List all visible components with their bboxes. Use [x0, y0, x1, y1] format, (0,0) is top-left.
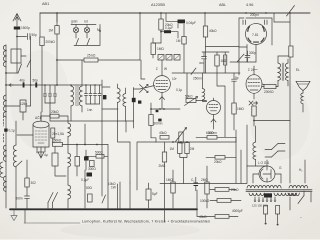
lamp green	[73, 27, 78, 32]
node lamp m1	[99, 30, 101, 32]
resistor 1M bottom	[171, 182, 175, 193]
svg-text:50p: 50p	[32, 33, 38, 37]
svg-text:2MΩ: 2MΩ	[201, 178, 208, 182]
switch wave band S1 box	[11, 49, 21, 63]
transformer power core	[246, 190, 312, 192]
capacitor 1500p	[14, 27, 20, 30]
wire T2 frame	[239, 18, 272, 47]
wire T1 grid diagonal	[134, 86, 155, 90]
wire 1M right	[233, 81, 235, 130]
svg-text:300Ω: 300Ω	[88, 167, 96, 171]
wire x85 vertical	[84, 124, 86, 208]
capacitor bank left of TR1	[43, 85, 46, 103]
resistor cluster a	[75, 157, 80, 167]
wire bottom frame line	[24, 222, 80, 224]
wire 1k leads	[55, 146, 66, 176]
wire ps switch links	[265, 144, 285, 158]
switch arm diagonal	[18, 64, 22, 73]
inductor IF2 secondary	[123, 94, 126, 107]
capacitor cathode blob b	[158, 119, 161, 122]
node tuning junction	[5, 84, 7, 86]
switch lamp red	[87, 39, 90, 46]
resistor 25k horizontal	[84, 58, 98, 62]
wire tuning line y85	[6, 84, 102, 86]
trimmer box left	[20, 100, 26, 112]
wire osc coil L4 vertical	[15, 121, 17, 208]
wire left resistor	[26, 160, 28, 189]
svg-text:~: ~	[300, 216, 302, 220]
potentiometer volume	[179, 132, 183, 143]
capacitor comb 2	[89, 85, 92, 104]
wire IF comb bottom	[86, 103, 100, 105]
resistor 20k tube plate	[50, 114, 59, 118]
lamp red	[84, 27, 89, 32]
wire det bus y73	[172, 72, 240, 74]
inductor ps choke	[253, 142, 256, 160]
wire cap branch	[161, 32, 178, 38]
inductor mid coil a	[68, 123, 71, 137]
svg-text:4000μF: 4000μF	[232, 209, 243, 213]
svg-text:0,04μF: 0,04μF	[186, 21, 196, 25]
wire T2 left drop	[238, 47, 240, 75]
svg-text:0,1μ: 0,1μ	[176, 88, 182, 92]
svg-text:300nn: 300nn	[154, 122, 163, 126]
wire af verticals	[165, 125, 248, 183]
svg-text:AB1: AB1	[42, 2, 49, 6]
inductor power winding bottom b	[274, 193, 297, 196]
svg-text:Σ: Σ	[156, 67, 158, 71]
wire det res down	[183, 24, 185, 73]
wire T2 bottom leads	[247, 45, 256, 63]
svg-text:Σ 24ᵐᵃ: Σ 24ᵐᵃ	[248, 68, 258, 72]
svg-text:50kΩ: 50kΩ	[185, 95, 193, 99]
resistor 50ohm bottom	[88, 194, 93, 202]
svg-text:A123SB: A123SB	[151, 3, 165, 7]
potentiometer arrow	[176, 128, 187, 142]
wire shield dashes	[3, 116, 5, 142]
inductor mid coil c	[68, 185, 71, 199]
inductor power secondary top	[289, 185, 308, 188]
resistor 5uF right	[146, 189, 151, 200]
transformer IF2 box	[102, 87, 118, 109]
node af feed	[253, 120, 255, 122]
resistor det3	[215, 55, 219, 66]
capacitor 0.1 bottomleft	[87, 173, 93, 177]
capacitor IF2 out	[132, 98, 136, 102]
wire x102 vertical	[101, 121, 103, 196]
wire 50k link	[187, 73, 207, 101]
wire from 50p cap	[29, 37, 32, 107]
resistor 2000ohm	[264, 85, 276, 89]
wire 5uF	[148, 183, 150, 208]
wire IF2 right vertical	[133, 88, 135, 122]
svg-text:rot: rot	[84, 20, 88, 24]
svg-text:5μF: 5μF	[152, 192, 158, 196]
svg-text:200pn: 200pn	[250, 13, 259, 17]
svg-text:500Ω: 500Ω	[95, 151, 103, 155]
wire T1 cathode	[150, 103, 152, 138]
resistor right small	[289, 46, 293, 57]
svg-text:1M: 1M	[176, 39, 181, 43]
wire filter bottom y121	[50, 120, 102, 122]
svg-text:1W: 1W	[111, 186, 116, 190]
transformer output OT	[278, 56, 290, 87]
ground symbol bus left	[13, 210, 15, 216]
wire right vertical x290	[289, 13, 291, 183]
capacitor 300 det	[202, 52, 207, 73]
svg-text:50Ω: 50Ω	[86, 186, 93, 190]
wire detector vertical x180	[177, 24, 179, 28]
inductor IF1 primary	[71, 86, 74, 106]
svg-text:1M: 1M	[49, 29, 54, 33]
svg-text:0,1μ: 0,1μ	[9, 129, 15, 133]
wire grid link tube	[17, 134, 33, 136]
wire Cp leads	[195, 177, 197, 191]
resistor left vertical	[25, 178, 29, 187]
electrolytic det thin	[224, 55, 227, 65]
svg-text:40kΩ: 40kΩ	[199, 215, 207, 219]
svg-text:60kΩ: 60kΩ	[206, 131, 214, 135]
inductor IF1 secondary	[79, 86, 82, 106]
switch mains a	[298, 196, 304, 204]
wire IF2 links	[118, 84, 126, 121]
svg-text:250nn: 250nn	[193, 77, 202, 81]
inductor osc coil L3b	[0, 162, 3, 178]
svg-text:10ᵖ: 10ᵖ	[172, 77, 178, 81]
inductor osc coil L4	[13, 145, 16, 167]
svg-text:5p: 5p	[235, 76, 239, 80]
wire top supply bus	[40, 12, 310, 14]
wire af bus y142	[156, 141, 236, 143]
wire det3	[217, 52, 225, 137]
transformer IF1	[71, 60, 82, 121]
switch mains top	[287, 6, 295, 17]
capacitor Cp bars	[194, 183, 199, 186]
capacitor 5p	[232, 73, 237, 81]
resistor 1M det	[182, 37, 186, 45]
svg-text:500n: 500n	[16, 197, 23, 201]
resistor T1 cathode	[149, 115, 153, 126]
switch arm diagonal 2	[27, 60, 31, 67]
wire tube ACH1 leads	[37, 147, 45, 157]
inductor mid coil b	[68, 153, 71, 167]
resistor 200k left	[40, 37, 44, 46]
inductor antenna coil L1	[3, 45, 6, 67]
wire lamp top	[57, 13, 100, 45]
capacitor T2 left	[243, 20, 245, 25]
wire output cathode	[253, 116, 255, 126]
wire center vertical x140	[140, 13, 145, 79]
svg-text:L O G 4: L O G 4	[258, 161, 269, 165]
wire mains	[266, 191, 304, 223]
tube output T4	[246, 66, 262, 99]
capacitor IF2 out b	[138, 101, 141, 104]
wire ps horizontal y183	[160, 183, 247, 185]
svg-text:20kΩ: 20kΩ	[231, 188, 239, 192]
switch osc left	[16, 161, 22, 167]
tube det T3	[207, 98, 221, 129]
wire 20k af	[206, 156, 236, 158]
switch x102	[102, 195, 106, 203]
wire output plate	[262, 84, 278, 87]
svg-text:100kΩ: 100kΩ	[200, 199, 210, 203]
wire electrolytic	[224, 52, 226, 73]
inductor OT primary	[278, 63, 281, 81]
wire box mid	[130, 142, 156, 190]
wire x205	[204, 13, 206, 26]
wire under cap bank	[45, 103, 55, 121]
wire lamp bottom	[74, 45, 100, 47]
svg-text:0,1μF: 0,1μF	[81, 178, 89, 182]
capacitor 0.1 black	[164, 30, 171, 33]
inductor power winding bottom a	[249, 193, 264, 196]
capacitor cathode blob a	[156, 110, 159, 112]
wire 1M link	[153, 38, 161, 58]
wire avc y109	[151, 108, 180, 110]
lamp panel box	[57, 13, 101, 46]
node left junction	[5, 72, 7, 74]
wire af links	[180, 154, 187, 184]
resistor 1M right	[232, 103, 236, 114]
wire riser x57	[56, 13, 58, 26]
resistor 1M mid	[151, 43, 155, 55]
wire det out	[230, 61, 256, 63]
resistor 20k ps	[215, 188, 229, 192]
speaker	[296, 81, 310, 112]
wire af bottom links	[173, 166, 207, 208]
capacitor T2 right	[265, 20, 267, 25]
wire ps links	[165, 184, 242, 223]
node avc dots	[150, 108, 165, 110]
svg-text:302: 302	[31, 181, 37, 185]
resistor 40k ps2	[215, 215, 229, 219]
svg-text:1MΩ: 1MΩ	[157, 47, 164, 51]
switch bottom a	[48, 193, 53, 203]
resistor 2M af	[185, 143, 189, 154]
svg-text:25 kΩ: 25 kΩ	[87, 54, 96, 58]
svg-text:grün: grün	[71, 20, 78, 24]
resistor 500ohm	[96, 155, 104, 159]
arrow T1 cathode mark	[160, 97, 165, 100]
resistor 20k top	[159, 19, 163, 30]
wire det coil	[203, 73, 207, 102]
tuning cross arrows	[140, 85, 149, 93]
wire x117 vertical	[118, 121, 131, 142]
switch ps a	[272, 144, 279, 150]
svg-text:1500p: 1500p	[21, 26, 30, 30]
wire OT leads	[278, 56, 290, 87]
tube rectifier T5	[259, 166, 275, 182]
resistor 1M x57	[55, 26, 59, 34]
resistor output cathode	[252, 106, 256, 116]
wire mid coil verticals	[67, 137, 69, 209]
capacitor 0.1uF det	[178, 20, 186, 24]
node mains plug dots	[265, 223, 279, 226]
svg-text:4μ: 4μ	[44, 153, 48, 157]
node y144 dots	[76, 144, 98, 146]
wire bottom risers	[108, 180, 130, 209]
resistor 1k box	[52, 153, 58, 166]
capacitor 500 bottom	[25, 189, 30, 209]
svg-text:40kΩ: 40kΩ	[209, 29, 217, 33]
node x57 y60	[56, 59, 58, 61]
capacitor 300p	[245, 51, 250, 62]
antenna	[13, 14, 21, 27]
wire det row top	[202, 51, 229, 53]
svg-text:20kΩ: 20kΩ	[214, 160, 222, 164]
switch lamp green	[76, 39, 79, 46]
wire 20k leads	[160, 13, 162, 43]
inductor antenna coil L2	[3, 95, 6, 117]
scan smudges	[10, 50, 310, 238]
inductor OT secondary	[285, 63, 288, 81]
wire trimmer link	[6, 106, 31, 120]
wire antenna down	[16, 30, 18, 74]
arrow trim left	[9, 84, 13, 87]
wire 40k left stub	[151, 138, 156, 142]
wire choke leads	[255, 126, 257, 166]
svg-text:W: W	[164, 67, 167, 71]
svg-text:1MΩ: 1MΩ	[166, 178, 173, 182]
wire right risers	[247, 160, 305, 183]
wire x274 stub	[274, 13, 290, 22]
wire earth drop x25	[24, 210, 26, 223]
switch ps b	[272, 151, 279, 157]
tube ACH1 body	[33, 121, 49, 147]
svg-text:ABL: ABL	[219, 3, 226, 7]
wire ps taps	[255, 197, 275, 200]
resistor 20k af	[215, 156, 225, 160]
wire plate resistor out	[59, 116, 68, 123]
capacitor IF2 black	[103, 95, 106, 99]
svg-text:300: 300	[199, 61, 204, 65]
capacitor bank 3	[53, 85, 56, 103]
capacitor comb 4	[98, 85, 101, 104]
switch bottom b	[53, 193, 58, 203]
svg-text:7-81: 7-81	[252, 33, 259, 37]
wire lamp leads	[76, 25, 87, 39]
svg-text:1M: 1M	[170, 147, 175, 151]
wire IF2 bottom	[102, 109, 134, 121]
svg-text:2MΩ: 2MΩ	[159, 164, 166, 168]
switch det	[191, 68, 196, 75]
wire det cap left	[166, 13, 178, 21]
wire hf plate line	[57, 59, 140, 61]
wire IF2 top stub	[101, 80, 103, 87]
node af bus dots	[172, 141, 188, 143]
capacitor 50p	[28, 34, 31, 40]
wire IF1 frame	[71, 60, 82, 121]
inductor power primary top	[247, 185, 281, 188]
svg-text:300p: 300p	[249, 51, 256, 55]
arrow cathode marks	[249, 101, 258, 105]
resistor 2M left	[162, 152, 166, 162]
inductor bottom left coil	[3, 176, 6, 192]
wire x126 x133 down	[126, 121, 134, 132]
resistor 50k det	[186, 99, 196, 103]
capacitor 0.1u shield	[4, 129, 7, 132]
node y85 dots	[44, 84, 96, 86]
wire left main vertical	[5, 45, 7, 208]
wire riser x57 lower	[56, 34, 58, 85]
svg-text:4.96: 4.96	[246, 3, 253, 7]
wire switches bottom	[48, 203, 53, 209]
node top bus junction dots	[56, 12, 291, 14]
inductor det coil	[203, 89, 205, 100]
resistor cluster c	[90, 161, 95, 167]
wire left riser x40	[39, 13, 41, 37]
svg-text:2M: 2M	[190, 147, 195, 151]
svg-text:M₁: M₁	[97, 28, 101, 32]
inductor power winding bottom c	[288, 193, 299, 196]
svg-text:0,1μF: 0,1μF	[165, 26, 173, 30]
node ps taps	[254, 200, 276, 202]
svg-text:1nn: 1nn	[87, 108, 93, 112]
switch T2 below	[237, 54, 244, 62]
wire rectifier leads	[247, 160, 281, 183]
svg-text:1MΩ: 1MΩ	[237, 107, 244, 111]
wire left riser x40 lower	[41, 46, 42, 122]
svg-text:1kΩ: 1kΩ	[221, 59, 227, 63]
capacitor comb 3	[94, 85, 97, 104]
inductor IF2 primary	[118, 88, 121, 103]
resistor 40k	[203, 26, 207, 37]
node 20k	[160, 31, 162, 33]
capacitor 40p	[23, 83, 25, 88]
wire avc to T2	[206, 46, 240, 48]
wire tube top lead	[41, 116, 50, 121]
capacitor 50p b	[35, 83, 37, 88]
resistor 2M bottom	[205, 182, 209, 194]
resistor grid side	[51, 128, 55, 138]
wire switch arm horizontal	[6, 72, 18, 74]
wire switch link	[21, 55, 26, 57]
inductor osc coil L3	[3, 145, 6, 162]
node 50p junction	[30, 84, 32, 86]
capacitor cluster b	[84, 157, 89, 161]
wire 500 leads	[85, 145, 108, 181]
tube ACH1 grid triangle	[38, 152, 44, 158]
wire ps2	[197, 215, 238, 217]
resistor 40k af	[160, 136, 169, 140]
tube mixer T1	[154, 60, 171, 109]
wire cluster links	[77, 145, 86, 177]
potentiometer arrow 50k	[185, 97, 198, 106]
resistor 100k ps	[217, 199, 231, 203]
svg-text:EL: EL	[296, 68, 300, 72]
wire grid side	[52, 138, 54, 143]
capacitor bank 2	[48, 85, 51, 103]
arrow T3 bottom	[211, 119, 216, 122]
wire af feed y120	[254, 120, 290, 122]
wire 60k	[196, 137, 236, 142]
resistor 60k	[207, 136, 217, 140]
inductor speaker field	[301, 93, 303, 104]
resistor 1M af	[178, 143, 182, 154]
capacitor ps blob	[264, 193, 272, 197]
svg-text:200kΩ: 200kΩ	[46, 40, 56, 44]
resistor 250k horizontal	[53, 143, 63, 147]
resistor mains drop b	[276, 206, 280, 215]
wire antenna branch right	[17, 36, 27, 38]
tube diode T2 big	[246, 24, 267, 45]
wire 40k down	[205, 37, 207, 73]
resistor mains drop a	[264, 206, 268, 215]
wire lower mid y144	[62, 144, 108, 146]
node antenna branch	[16, 36, 18, 38]
svg-text:40kΩ: 40kΩ	[159, 131, 167, 135]
svg-text:125 150 220: 125 150 220	[252, 204, 268, 208]
